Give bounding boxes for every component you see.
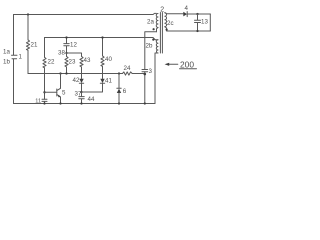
wire R40 top lead xyxy=(102,38,104,56)
wire C3 bottom lead xyxy=(144,72,146,104)
wire R21 top lead xyxy=(27,15,29,40)
svg-text:5: 5 xyxy=(62,90,66,97)
phase dot 2b xyxy=(152,39,154,41)
svg-text:11: 11 xyxy=(35,99,41,105)
svg-text:38: 38 xyxy=(58,50,65,57)
wire node 38 to R43 top xyxy=(67,53,82,56)
node top bus / R21 junction xyxy=(27,13,29,15)
wire top bus hook to 2a xyxy=(153,13,156,14)
resistor R24 xyxy=(123,72,133,75)
resistor R23 xyxy=(65,56,68,67)
wire D42 cathode to node 37 xyxy=(81,83,83,92)
resistor R22 xyxy=(43,57,46,68)
capacitor C12 xyxy=(64,38,69,54)
capacitor C11 xyxy=(42,99,47,101)
capacitor C13 xyxy=(195,14,201,31)
node D6 / mid bus xyxy=(118,72,120,74)
svg-text:23: 23 xyxy=(69,59,76,66)
wire R22 top lead xyxy=(44,38,46,58)
svg-text:22: 22 xyxy=(48,59,55,66)
resistor R21 xyxy=(26,40,29,51)
wire C11 bottom lead xyxy=(44,101,46,103)
svg-text:21: 21 xyxy=(31,42,38,49)
node R40 / upper bus xyxy=(101,36,103,38)
wire output right edge xyxy=(209,14,211,31)
diode D42 xyxy=(79,79,83,83)
svg-text:1a: 1a xyxy=(3,49,10,56)
wire left input column lower xyxy=(13,59,15,104)
terminal 1 input plug ticks xyxy=(12,55,18,58)
svg-text:43: 43 xyxy=(84,57,91,64)
node C13 / output return xyxy=(196,30,198,32)
wire Q5 base lead xyxy=(45,91,57,93)
wire 2b bottom to bottom bus xyxy=(155,53,158,104)
node C3 column / bottom bus xyxy=(144,102,146,104)
wire upper bus hook to 2b xyxy=(155,39,158,41)
svg-text:12: 12 xyxy=(70,42,77,49)
wire bottom bus xyxy=(14,103,156,105)
diode D6 xyxy=(117,87,121,89)
svg-text:1: 1 xyxy=(19,54,23,61)
svg-text:3: 3 xyxy=(149,68,153,75)
transformer winding 2a xyxy=(156,14,158,28)
svg-text:24: 24 xyxy=(124,65,131,72)
node C3 / mid bus xyxy=(144,73,147,76)
wire R40 bottom lead xyxy=(102,66,104,73)
svg-text:37: 37 xyxy=(75,91,82,98)
node C13 / output plus xyxy=(196,13,198,15)
diode D4 xyxy=(183,12,187,17)
capacitor C44 xyxy=(79,92,84,104)
wire left input column upper xyxy=(13,15,15,56)
wire R23 leads xyxy=(66,53,68,74)
resistor R43 xyxy=(80,56,83,67)
wire top bus xyxy=(14,14,154,16)
wire mid bus xyxy=(28,73,123,75)
label 200 underline xyxy=(180,68,197,70)
node C11 / bottom bus xyxy=(43,102,45,104)
svg-text:41: 41 xyxy=(105,78,112,85)
wire 2c top to D4 anode xyxy=(165,13,184,14)
transformer winding 2c xyxy=(165,13,167,27)
svg-text:44: 44 xyxy=(88,96,95,103)
resistor R40 xyxy=(101,56,104,67)
svg-text:40: 40 xyxy=(105,56,112,63)
wire D6 anode lead xyxy=(118,93,120,104)
svg-text:6: 6 xyxy=(123,88,127,95)
svg-text:2b: 2b xyxy=(146,43,153,50)
wire 2a bottom to snubber column xyxy=(145,32,157,70)
wire R22 to C11 column xyxy=(44,68,46,100)
svg-text:1b: 1b xyxy=(3,59,10,66)
wire Q5 emitter lead xyxy=(60,97,62,103)
wire 2a bottom hook xyxy=(157,28,159,32)
capacitor C3 xyxy=(142,70,148,72)
arrow 200 pointer xyxy=(168,63,178,65)
svg-text:42: 42 xyxy=(73,77,80,84)
transformer winding 2b xyxy=(156,40,158,53)
svg-text:200: 200 xyxy=(180,59,194,69)
svg-text:2a: 2a xyxy=(147,19,154,26)
node base junction on C11 column xyxy=(43,91,45,93)
node Q5 emitter / bottom bus xyxy=(59,102,61,104)
wire R21 bottom lead to mid bus xyxy=(27,50,29,73)
wire Q5 collector lead xyxy=(60,74,62,89)
phase dot 2a xyxy=(153,28,155,30)
svg-text:2: 2 xyxy=(160,7,164,14)
node 38 xyxy=(65,52,67,54)
wire 2c bottom to output return xyxy=(165,27,211,31)
node D6 / bottom bus xyxy=(118,102,120,104)
node C44 / bottom bus xyxy=(80,102,82,104)
node R23 / mid bus xyxy=(65,72,67,74)
diode D41 xyxy=(100,79,104,83)
wire node 37 to D41 cathode xyxy=(82,83,103,92)
wire R43 bottom to D42 xyxy=(81,67,83,79)
node C12 / upper bus xyxy=(65,36,67,38)
node Q5 collector / mid bus xyxy=(59,72,61,74)
transformer core xyxy=(160,13,162,54)
node 37 xyxy=(80,91,82,93)
svg-text:4: 4 xyxy=(185,5,189,12)
wire D4 cathode to output xyxy=(187,13,210,15)
svg-text:13: 13 xyxy=(201,19,208,26)
transistor Q5 xyxy=(56,89,58,96)
wire D6 cathode lead xyxy=(118,74,120,89)
wire upper bus xyxy=(45,38,156,40)
wire R24 to node C3 xyxy=(132,73,145,75)
phase dot 2c xyxy=(166,29,168,31)
wire D41 anode to R40 xyxy=(102,74,104,79)
svg-text:2c: 2c xyxy=(167,20,174,27)
